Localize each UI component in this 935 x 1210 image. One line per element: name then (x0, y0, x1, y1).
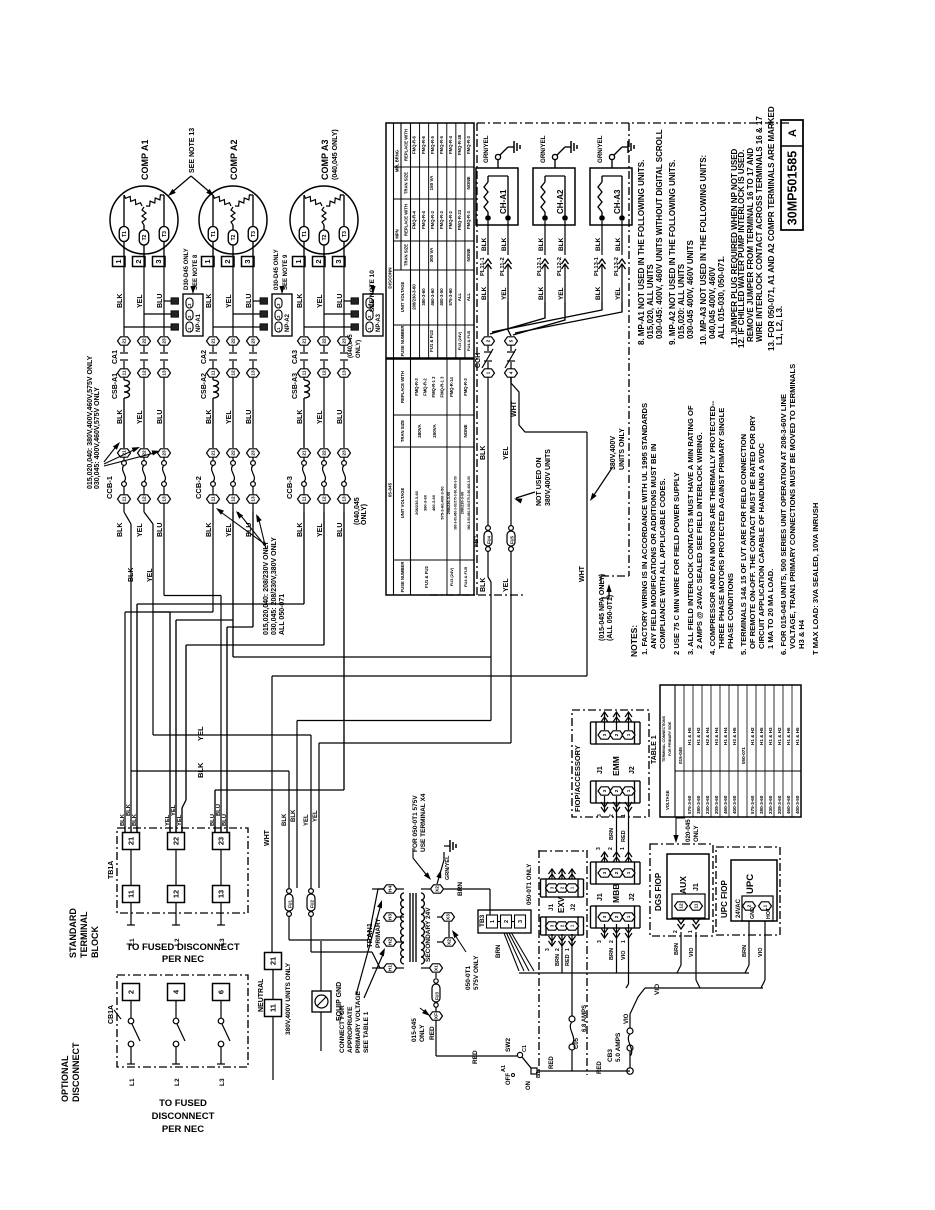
svg-text:T MAX LOAD: 3VA SEALED, 10VA I: T MAX LOAD: 3VA SEALED, 10VA INRUSH (811, 503, 820, 655)
svg-text:T1: T1 (302, 231, 308, 237)
svg-text:BLK: BLK (297, 523, 304, 537)
svg-text:1: 1 (114, 259, 123, 263)
wires below CH-A1 (487, 221, 489, 255)
svg-text:3: 3 (334, 259, 343, 263)
svg-text:MPN: MPN (395, 229, 400, 238)
svg-text:BLK: BLK (538, 286, 545, 300)
svg-text:UNITS ONLY: UNITS ONLY (619, 428, 626, 470)
svg-text:208/230-3-60: 208/230-3-60 (412, 284, 417, 310)
svg-text:400-3-50: 400-3-50 (439, 288, 444, 306)
svg-text:575-3-60,400-3-50: 575-3-60,400-3-50 (440, 486, 445, 520)
svg-text:11: 11 (122, 496, 128, 501)
svg-text:23: 23 (162, 450, 168, 456)
table B field dividers (394, 414, 475, 416)
svg-text:23: 23 (251, 450, 257, 456)
wire YEL from CCH to FB1 (510, 377, 512, 382)
svg-text:015,020: ALL UNITS: 015,020: ALL UNITS (677, 263, 686, 339)
svg-text:SEE NOTE 13: SEE NOTE 13 (189, 128, 196, 173)
svg-text:1: 1 (626, 733, 631, 736)
svg-text:FMQ-R-14: FMQ-R-14 (449, 376, 454, 396)
svg-text:BRN: BRN (742, 945, 748, 957)
svg-text:REPLACE WITH: REPLACE WITH (400, 371, 405, 403)
svg-text:H1: H1 (388, 965, 394, 971)
neutral terminal 11 (265, 1000, 282, 1017)
svg-text:GND: GND (750, 907, 756, 919)
svg-text:CSB-A3: CSB-A3 (292, 373, 299, 399)
svg-text:13: 13 (216, 890, 225, 898)
svg-text:UPC FIOP: UPC FIOP (720, 880, 729, 918)
terminal XF (430, 1012, 443, 1020)
svg-text:USE TERMINAL X4: USE TERMINAL X4 (420, 793, 427, 852)
panel boundary dash-dot bottom stub (430, 594, 526, 596)
fuse FU5 (509, 526, 514, 531)
circuit breaker CCB-3 (298, 449, 311, 457)
svg-text:FU1 & FU2: FU1 & FU2 (429, 330, 434, 352)
svg-text:H1 & H2: H1 & H2 (696, 727, 701, 745)
svg-text:BLK: BLK (481, 286, 488, 300)
svg-text:CSB-A2: CSB-A2 (201, 373, 208, 399)
module UPC (731, 860, 777, 921)
equipment ground lug (320, 941, 322, 991)
svg-text:12: 12 (142, 496, 148, 502)
wire A2 BLU (252, 512, 254, 627)
panel boundary dash-dot right (628, 123, 630, 576)
wire A3 YEL (323, 512, 325, 645)
crankcase heater CH-A2 (533, 168, 575, 225)
svg-text:NP-A1: NP-A1 (196, 313, 202, 332)
svg-text:TO FUSED: TO FUSED (159, 1098, 207, 1109)
svg-text:YEL: YEL (171, 804, 177, 816)
svg-text:2: 2 (614, 789, 619, 792)
svg-text:FB1: FB1 (473, 535, 480, 547)
panel boundary dash-dot left (476, 123, 478, 595)
terminals T1 T2 T3 of COMP A3 (299, 227, 309, 242)
BRN bus wire (519, 972, 749, 974)
svg-text:ONLY): ONLY) (361, 504, 368, 525)
svg-text:H3 & H4: H3 & H4 (714, 727, 719, 745)
svg-text:YEL: YEL (313, 810, 319, 822)
svg-text:230-3-60: 230-3-60 (768, 795, 773, 814)
svg-text:H1 & H4: H1 & H4 (723, 727, 728, 745)
svg-text:THREE PHASE MOTORS PROTECTED A: THREE PHASE MOTORS PROTECTED AGAINST PRI… (717, 408, 726, 649)
compressor motor COMP A3 (290, 186, 358, 254)
wires below CH-A3 (601, 221, 603, 255)
svg-text:H3: H3 (388, 914, 394, 920)
svg-text:FOR PRIMARY SIDE: FOR PRIMARY SIDE (668, 721, 672, 756)
plug PL13-1 (599, 259, 606, 264)
svg-text:PRIMARY VOLTAGE: PRIMARY VOLTAGE (355, 990, 362, 1053)
svg-text:FMQ-R-4: FMQ-R-4 (412, 210, 417, 229)
svg-text:FUSE NUMBER: FUSE NUMBER (400, 562, 405, 593)
contactor CA1 contacts (118, 337, 131, 345)
wire A1 BLU (163, 512, 165, 596)
neutral WHT wire (586, 432, 588, 676)
wire BRN from X2 to TB3 (444, 888, 490, 890)
svg-text:MBB: MBB (611, 884, 621, 903)
svg-text:NOTES:: NOTES: (629, 625, 639, 657)
svg-text:22: 22 (231, 450, 237, 456)
svg-text:PER NEC: PER NEC (162, 1124, 204, 1135)
svg-text:PL11-2: PL11-2 (500, 257, 506, 276)
svg-text:GRN/YEL: GRN/YEL (597, 135, 604, 163)
svg-text:H1 & H3: H1 & H3 (768, 727, 773, 745)
svg-text:BRN: BRN (555, 954, 561, 966)
svg-text:YEL: YEL (137, 523, 144, 537)
svg-text:REPLACE WITH: REPLACE WITH (404, 204, 409, 236)
svg-text:(ALL 050-0T1): (ALL 050-0T1) (607, 595, 614, 641)
svg-text:460-3-60: 460-3-60 (431, 494, 436, 511)
svg-text:BRN: BRN (495, 944, 502, 958)
svg-text:1: 1 (626, 915, 631, 918)
svg-text:RED: RED (565, 954, 571, 966)
wires from leads to NP-A3 (344, 300, 351, 302)
svg-text:BLK: BLK (538, 237, 545, 251)
svg-text:5. TERMINALS 14& 15 OF LVT ARE: 5. TERMINALS 14& 15 OF LVT ARE FOR FIELD… (739, 434, 748, 655)
svg-text:BLK: BLK (196, 762, 205, 778)
wire A1 BLK vertical (130, 524, 132, 833)
svg-text:YEL: YEL (226, 410, 233, 424)
svg-text:BLU: BLU (337, 410, 344, 424)
svg-text:UNIT VOLTAGE: UNIT VOLTAGE (400, 282, 405, 313)
BLK bus wire (131, 770, 289, 772)
disconnect pole 6 of CB1A (213, 984, 230, 1001)
svg-text:FMQ-R-3: FMQ-R-3 (430, 210, 435, 229)
contactor CA3 contacts (298, 337, 311, 345)
svg-text:5.0 AMPS: 5.0 AMPS (615, 1032, 622, 1062)
svg-text:VIO: VIO (654, 984, 661, 995)
svg-text:YEL: YEL (226, 523, 233, 537)
svg-text:YEL: YEL (615, 287, 622, 300)
svg-text:H4: H4 (388, 886, 394, 892)
svg-text:2 AMPS @ 24VAC SEALED SEE FIE: 2 AMPS @ 24VAC SEALED SEE FIELD INTERLOC… (695, 432, 704, 649)
svg-text:SEE NOTE 9: SEE NOTE 9 (283, 254, 289, 290)
svg-text:DGS FIOP: DGS FIOP (654, 872, 663, 911)
svg-text:050-071: 050-071 (741, 747, 746, 764)
svg-text:250VA: 250VA (432, 424, 437, 438)
svg-text:T2: T2 (142, 234, 148, 240)
svg-text:208/230-3-60: 208/230-3-60 (447, 492, 451, 515)
svg-text:040,045 400V, 460V: 040,045 400V, 460V (708, 266, 717, 339)
svg-text:BRN: BRN (609, 948, 615, 960)
svg-text:380V,400V: 380V,400V (610, 436, 617, 470)
svg-text:2: 2 (223, 259, 232, 263)
wire BLK to FU1 (288, 771, 290, 888)
compressor motor COMP A1 (110, 186, 178, 254)
optional disconnect CB1A (117, 975, 248, 1067)
svg-text:22: 22 (322, 338, 328, 344)
fuse replacement table upper (386, 123, 474, 358)
svg-text:WHT: WHT (264, 829, 271, 846)
svg-text:050-0T1: 050-0T1 (465, 965, 472, 990)
svg-text:FMQ-R-3: FMQ-R-3 (463, 378, 468, 396)
svg-text:11: 11 (268, 1004, 277, 1012)
neutral terminal 21 (265, 953, 282, 970)
svg-text:CSB-A1: CSB-A1 (112, 373, 119, 399)
svg-text:6: 6 (216, 990, 225, 994)
svg-text:PL12-1: PL12-1 (537, 256, 543, 276)
power lead boxes 1 2 3 of COMP A3 (293, 257, 306, 267)
secondary taps X3 X2 (437, 916, 442, 918)
svg-text:380-3-60: 380-3-60 (696, 795, 701, 814)
svg-text:FU4: FU4 (487, 535, 492, 544)
svg-text:EMM: EMM (611, 756, 621, 776)
svg-text:460-3-60: 460-3-60 (723, 795, 728, 814)
svg-text:12: 12 (231, 370, 237, 376)
svg-text:575-3-60: 575-3-60 (448, 288, 453, 306)
svg-text:FMQ-R-3: FMQ-R-3 (439, 210, 444, 229)
svg-text:12: 12 (171, 890, 180, 898)
svg-text:11: 11 (302, 496, 308, 501)
current sensor CSB-A1 (123, 377, 125, 380)
svg-text:UPC: UPC (745, 874, 756, 894)
svg-text:BRN: BRN (609, 828, 615, 840)
svg-text:YEL: YEL (501, 287, 508, 300)
svg-text:TERMINAL: TERMINAL (79, 911, 89, 958)
svg-text:OPTIONAL: OPTIONAL (60, 1055, 70, 1102)
svg-text:21: 21 (302, 450, 308, 456)
svg-text:208/230-3-60: 208/230-3-60 (414, 490, 419, 515)
svg-text:MPL BRNG: MPL BRNG (395, 150, 400, 172)
svg-text:FMQ-R-3: FMQ-R-3 (414, 378, 419, 396)
svg-text:ON: ON (526, 1081, 532, 1090)
svg-text:YEL: YEL (317, 523, 324, 537)
FIOP/ACCESSORY enclosure (572, 710, 649, 817)
svg-text:FU1 & FU2: FU1 & FU2 (424, 566, 429, 588)
svg-text:2: 2 (486, 339, 492, 342)
svg-text:BLOCK: BLOCK (90, 926, 100, 958)
wires from EMM J2 down (616, 812, 618, 852)
svg-text:CONNECT FOR: CONNECT FOR (339, 1005, 346, 1053)
svg-text:NONE: NONE (466, 176, 471, 189)
svg-text:380V,400V UNITS ONLY: 380V,400V UNITS ONLY (285, 962, 292, 1035)
svg-text:1: 1 (203, 259, 212, 263)
svg-text:13: 13 (251, 370, 257, 376)
terminals T1 T2 T3 of COMP A1 (119, 227, 129, 242)
svg-text:CCB-1: CCB-1 (105, 476, 114, 499)
svg-text:VIO: VIO (758, 947, 764, 957)
svg-text:L2: L2 (367, 315, 372, 321)
svg-text:CA2: CA2 (201, 350, 208, 364)
wire YEL to FU2 (310, 735, 312, 888)
module EXV (551, 869, 553, 879)
svg-text:REMOVE JUMPER FROM TERMINAL 16: REMOVE JUMPER FROM TERMINAL 16 TO 17 AND (746, 148, 755, 342)
svg-text:FIOP/ACCESSORY: FIOP/ACCESSORY (573, 745, 582, 812)
svg-text:YEL: YEL (137, 294, 144, 308)
svg-text:12: 12 (231, 496, 237, 502)
svg-text:2: 2 (134, 259, 143, 263)
svg-text:2: 2 (614, 871, 619, 874)
svg-text:23: 23 (342, 450, 348, 456)
wire A2 BLK (212, 512, 214, 612)
svg-text:3: 3 (518, 920, 524, 923)
svg-text:3: 3 (154, 259, 163, 263)
terminal block TB3 (478, 910, 531, 933)
svg-text:NP-A3: NP-A3 (376, 313, 382, 332)
svg-text:BLU: BLU (337, 294, 344, 308)
svg-text:X1: X1 (434, 965, 440, 971)
svg-text:FMQ-R-2: FMQ-R-2 (423, 378, 428, 396)
svg-text:J2: J2 (629, 766, 636, 774)
svg-text:3: 3 (597, 814, 603, 817)
svg-text:CH-A1: CH-A1 (499, 189, 508, 214)
svg-text:J1: J1 (597, 766, 604, 774)
svg-text:11: 11 (122, 370, 128, 375)
svg-text:RED: RED (549, 1056, 555, 1069)
svg-text:FMQ-R-5: FMQ-R-5 (439, 135, 444, 154)
svg-text:22: 22 (171, 837, 180, 845)
VIO bus wire (645, 987, 763, 989)
plug PL12-2 (562, 259, 569, 264)
svg-text:BLK: BLK (595, 286, 602, 300)
wires from leads to NP-A2 (253, 300, 260, 302)
svg-text:22: 22 (142, 338, 148, 344)
svg-text:020-045: 020-045 (685, 819, 692, 842)
fuse FU1 (287, 889, 292, 894)
svg-text:VOLTAGE, TRAN1 PRIMARY CONNECT: VOLTAGE, TRAN1 PRIMARY CONNECTIONS MUST … (788, 364, 797, 649)
svg-text:1: 1 (626, 871, 631, 874)
svg-text:150 VA: 150 VA (429, 175, 434, 190)
svg-text:DISCONN: DISCONN (388, 267, 393, 289)
svg-text:9. MP-A2 NOT USED IN THE FOLLO: 9. MP-A2 NOT USED IN THE FOLLOWING UNITS… (668, 160, 677, 345)
svg-text:3: 3 (602, 915, 607, 918)
svg-text:015,020, ALL UNITS: 015,020, ALL UNITS (646, 264, 655, 339)
svg-text:FMQ-R-1 3: FMQ-R-1 3 (440, 376, 445, 398)
svg-text:BLK: BLK (117, 523, 124, 537)
wires from AUX down (680, 932, 682, 965)
svg-text:ONLY: ONLY (419, 1024, 426, 1042)
svg-text:23: 23 (342, 338, 348, 344)
svg-text:23: 23 (251, 338, 257, 344)
svg-text:T2: T2 (231, 234, 237, 240)
svg-text:015,020,040: 208/230V ONLY: 015,020,040: 208/230V ONLY (263, 541, 270, 635)
svg-text:ALL: ALL (466, 292, 471, 301)
svg-text:L2: L2 (276, 315, 281, 321)
svg-text:FU3 (24V): FU3 (24V) (457, 331, 462, 350)
fuse replacement table lower (386, 359, 474, 595)
svg-text:H1 & H5: H1 & H5 (687, 727, 692, 745)
svg-text:2: 2 (608, 847, 614, 850)
svg-text:CCB-3: CCB-3 (285, 476, 294, 499)
svg-text:ONLY): ONLY) (356, 340, 362, 358)
svg-text:J1: J1 (597, 893, 604, 901)
plug PL13-2 (619, 259, 626, 264)
svg-text:UNIT VOLTAGE: UNIT VOLTAGE (400, 488, 405, 519)
svg-text:380-3-60,460-3-60,575-3-60,400: 380-3-60,460-3-60,575-3-60,400-3-50 (454, 476, 458, 530)
svg-text:SW2: SW2 (505, 1038, 512, 1052)
svg-text:DISCONNECT: DISCONNECT (152, 1111, 215, 1122)
ground connection of CH-A3 (611, 160, 613, 168)
svg-text:CH-A2: CH-A2 (556, 189, 565, 214)
svg-text:BLK: BLK (282, 813, 288, 826)
svg-text:380V,400V UNITS: 380V,400V UNITS (545, 449, 552, 506)
svg-text:BLU: BLU (157, 523, 164, 537)
svg-text:SECONDARY 24V: SECONDARY 24V (425, 907, 432, 962)
svg-text:460-3-60: 460-3-60 (786, 795, 791, 814)
svg-text:13: 13 (162, 370, 168, 376)
svg-text:030-D45 ONLY: 030-D45 ONLY (274, 249, 280, 290)
svg-text:PL13-2: PL13-2 (614, 257, 620, 276)
svg-text:FU4 & FU5: FU4 & FU5 (466, 330, 471, 351)
svg-text:230-3-60: 230-3-60 (705, 795, 710, 814)
wire YEL pair from FB1 (319, 742, 511, 744)
svg-text:4. COMPRESSOR AND FAN MOTORS A: 4. COMPRESSOR AND FAN MOTORS ARE THERMAL… (708, 400, 717, 655)
svg-text:FMQ-R-5: FMQ-R-5 (430, 135, 435, 154)
svg-text:030-045 400V, 460V UNITS: 030-045 400V, 460V UNITS (686, 239, 695, 339)
svg-text:1. FACTORY WIRING IS IN ACCORD: 1. FACTORY WIRING IS IN ACCORDANCE WITH … (640, 403, 649, 655)
svg-text:13: 13 (162, 496, 168, 502)
svg-text:ALL: ALL (457, 292, 462, 301)
svg-text:1: 1 (486, 371, 492, 374)
svg-text:1: 1 (621, 940, 627, 943)
disconnect pole 4 of CB1A (168, 984, 185, 1001)
svg-text:05-045: 05-045 (388, 482, 393, 497)
svg-text:FMQ-R-6: FMQ-R-6 (412, 135, 417, 154)
ground connection of CH-A2 (554, 160, 556, 168)
svg-text:FMQ-R-6: FMQ-R-6 (421, 135, 426, 154)
svg-text:13: 13 (342, 370, 348, 376)
svg-text:L3: L3 (219, 1078, 226, 1086)
svg-text:2: 2 (609, 940, 615, 943)
wires below CSB-A3 (323, 377, 325, 448)
svg-text:PL12-2: PL12-2 (557, 257, 563, 276)
svg-text:RED: RED (621, 830, 627, 842)
terminal 21 and 11 of TB1A (123, 833, 140, 850)
svg-text:CCB-2: CCB-2 (194, 476, 203, 499)
svg-text:EXV: EXV (557, 896, 566, 913)
current sensor CSB-A2 (212, 377, 214, 380)
svg-text:BLU: BLU (246, 294, 253, 308)
svg-text:GRN/YEL: GRN/YEL (483, 135, 490, 163)
svg-text:030,045: 208/230V,380V ONLY: 030,045: 208/230V,380V ONLY (271, 537, 278, 635)
power lead boxes 1 2 3 of COMP A1 (113, 257, 126, 267)
switch SW2 (517, 1052, 522, 1057)
svg-text:H1 & H5: H1 & H5 (759, 727, 764, 745)
secondary tap X2 top (421, 888, 430, 890)
svg-text:1: 1 (626, 789, 631, 792)
terminals T1 T2 T3 of COMP A2 (208, 227, 218, 242)
wire RED from XF to SW2 (436, 1055, 517, 1057)
svg-text:CCH: CCH (475, 353, 482, 368)
svg-text:COMP A2: COMP A2 (229, 139, 239, 180)
svg-text:YEL: YEL (503, 446, 510, 460)
crankcase heater CH-A3 (590, 168, 632, 225)
svg-text:3: 3 (545, 948, 551, 951)
svg-text:T3: T3 (251, 231, 257, 237)
wires below FB1 (487, 551, 489, 577)
svg-text:L1: L1 (129, 1078, 136, 1086)
svg-text:TB1A: TB1A (108, 861, 115, 879)
wires from UPC down (748, 921, 750, 965)
svg-text:H1 & H5: H1 & H5 (795, 727, 800, 745)
nameplate NP-A2 (272, 294, 292, 336)
svg-text:400-3-50: 400-3-50 (732, 795, 737, 814)
svg-text:13: 13 (342, 496, 348, 502)
disconnect pole 2 of CB1A (123, 984, 140, 1001)
svg-text:OF REMOTE ON-OFF. THE CONTACT: OF REMOTE ON-OFF. THE CONTACT MUST BE RA… (748, 415, 757, 649)
svg-text:FMQ-R-4: FMQ-R-4 (448, 135, 453, 154)
svg-text:380-3-60: 380-3-60 (421, 288, 426, 306)
wire A1 BLK jog (124, 512, 131, 524)
svg-text:L2: L2 (174, 1078, 181, 1086)
svg-text:2: 2 (555, 948, 561, 951)
svg-text:YEL: YEL (196, 726, 205, 741)
svg-text:CH-A3: CH-A3 (613, 189, 622, 214)
panel boundary dash-dot top (477, 122, 790, 124)
svg-text:1: 1 (294, 259, 303, 263)
svg-text:21: 21 (211, 338, 217, 344)
svg-text:YEL: YEL (503, 578, 510, 592)
svg-text:AUX: AUX (678, 876, 688, 894)
